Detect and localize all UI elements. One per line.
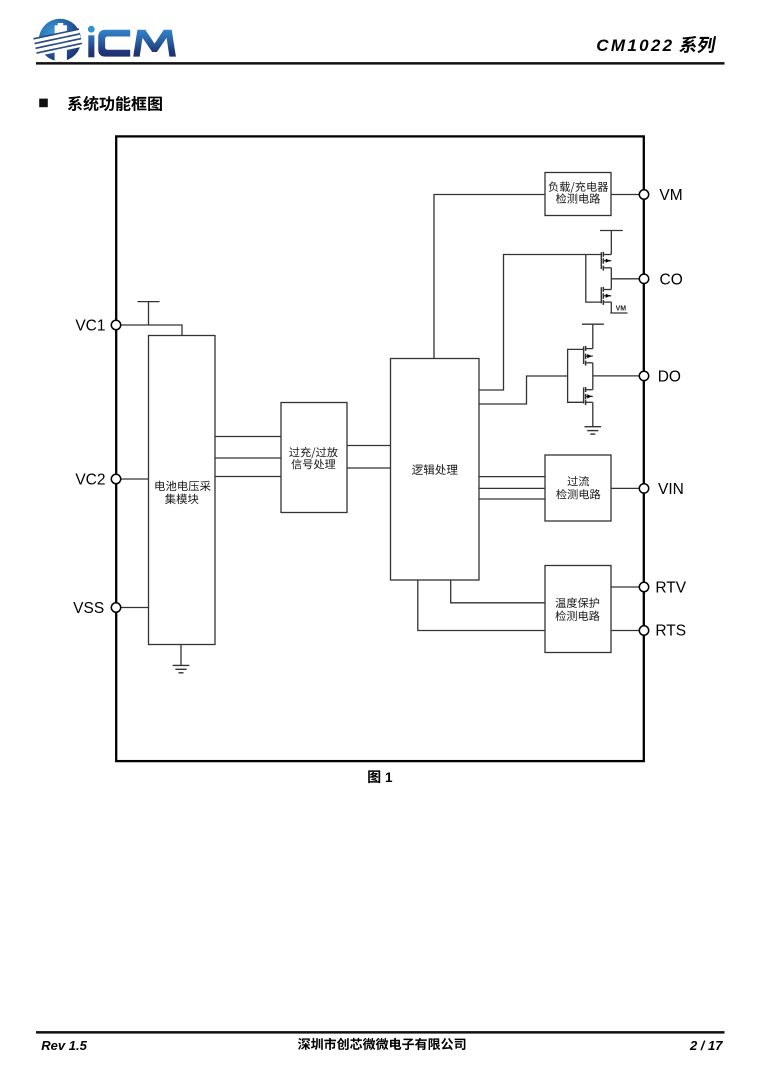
wire DO out (593, 375, 640, 377)
terminal VC1 (111, 320, 120, 329)
wire B3-B4 b (347, 467, 391, 469)
label B3 line2 (291, 459, 335, 469)
svg-text:RTS: RTS (655, 622, 686, 639)
diagram frame (116, 136, 644, 761)
label VC2 (75, 472, 105, 489)
power bar above Q3 (582, 323, 604, 325)
figure caption 图 (368, 770, 380, 783)
terminal VSS (111, 603, 120, 612)
block B2 电池电压采集模块 (149, 336, 216, 645)
svg-text:VC2: VC2 (75, 472, 105, 489)
terminal VC2 (111, 474, 120, 483)
wire B4-B5 a (479, 476, 545, 478)
block B4 逻辑处理 (391, 359, 480, 581)
footer company (298, 1038, 465, 1050)
wire B6 to RTV (611, 586, 639, 588)
wire Q1 drain lead (610, 231, 612, 255)
label VC1 (75, 318, 105, 335)
wire Q4 source to ground (592, 402, 594, 426)
svg-text:VC1: VC1 (75, 318, 105, 335)
svg-text:CM1022: CM1022 (596, 36, 674, 55)
wire CO out (611, 278, 639, 280)
transistor Q3 (584, 346, 593, 366)
wire B3-B4 a (347, 445, 391, 447)
footer rule (36, 1031, 725, 1034)
wire VC2 to B2 (121, 478, 149, 480)
label B2 line2 (165, 494, 199, 505)
logo text iCM (88, 26, 176, 57)
label B6 line1 (556, 598, 600, 608)
label DO (658, 368, 681, 385)
wire Q3-Q4 node (592, 363, 594, 390)
figure caption 1 (385, 770, 393, 785)
ground under Q4 (585, 427, 602, 434)
VM bar under Q2 (610, 312, 627, 314)
header title 系列 (679, 36, 716, 53)
wire B2-B3 c (215, 476, 281, 478)
block B5 过流检测电路 (545, 455, 611, 521)
svg-text:1: 1 (385, 770, 393, 785)
footer page (689, 1038, 723, 1053)
label VIN (658, 481, 684, 498)
label VSS (73, 600, 104, 617)
wire B4 to DO gates (479, 376, 568, 404)
svg-text:VSS: VSS (73, 600, 104, 617)
label B4 (412, 464, 458, 475)
svg-text:VIN: VIN (658, 481, 684, 498)
svg-text:CO: CO (660, 271, 683, 288)
label VM small (616, 305, 627, 312)
wire DO gates vertical (568, 349, 584, 402)
terminal VIN (639, 484, 648, 493)
wire VC1 to B2 (121, 325, 182, 336)
svg-text:VM: VM (616, 305, 627, 312)
wire B4 to B6 upper (451, 580, 545, 603)
wire CO gate branch (586, 255, 602, 303)
section heading 系统功能框图 (68, 96, 162, 111)
block B1 负载/充电器检测电路 (545, 173, 611, 216)
transistor Q1 (601, 252, 611, 271)
terminal CO (639, 274, 648, 283)
wire B2-B3 a (215, 436, 281, 438)
label B1 line2 (556, 193, 600, 203)
power bar stem (148, 302, 150, 325)
label B3 line1 (289, 447, 338, 459)
logo iCM icon (33, 19, 82, 63)
svg-text:Rev 1.5: Rev 1.5 (41, 1038, 87, 1053)
wire B4-B5 c (479, 498, 545, 500)
label B1 line1 (549, 181, 609, 193)
label B5 line2 (556, 489, 600, 499)
footer rev (41, 1038, 87, 1053)
section bullet (39, 99, 48, 108)
terminal RTS (639, 626, 648, 635)
svg-text:2 / 17: 2 / 17 (689, 1038, 723, 1053)
header title CM1022 (596, 36, 674, 55)
svg-text:DO: DO (658, 368, 681, 385)
terminal DO (639, 371, 648, 380)
wire B2-B3 b (215, 457, 281, 459)
power bar at VC1 (138, 301, 160, 303)
wire B4-B5 b (479, 487, 545, 489)
wire Q3 drain lead (592, 324, 594, 348)
label VM (659, 187, 682, 204)
wire B6 to RTS (611, 630, 639, 632)
label B5 line1 (568, 476, 590, 486)
terminal RTV (639, 582, 648, 591)
svg-text:VM: VM (659, 187, 682, 204)
wire VSS to B2 (121, 607, 149, 609)
wire B4 top to B1 (434, 195, 545, 359)
header rule (36, 62, 725, 65)
label B2 line1 (155, 481, 210, 492)
label RTV (655, 580, 686, 597)
label B6 line2 (556, 611, 600, 621)
block B6 温度保护检测电路 (545, 566, 611, 653)
power bar above Q1 (600, 230, 623, 232)
transistor Q4 (584, 387, 593, 405)
wire B1 to VM (611, 194, 639, 196)
svg-text:RTV: RTV (655, 580, 686, 597)
wire B4 to CO gates (479, 255, 601, 391)
wire Q2 source lead (610, 302, 612, 313)
wire B4 to B6 lower (418, 580, 545, 630)
wire B2 to ground (180, 645, 182, 666)
wire B5 to VIN (611, 487, 639, 489)
terminal VM (639, 190, 648, 199)
block B3 过充/过放信号处理 (281, 403, 347, 513)
label RTS (655, 622, 686, 639)
label CO (660, 271, 683, 288)
transistor Q2 (601, 287, 611, 305)
ground under B2 (173, 665, 190, 672)
wire Q1-Q2 node to CO (610, 268, 612, 290)
